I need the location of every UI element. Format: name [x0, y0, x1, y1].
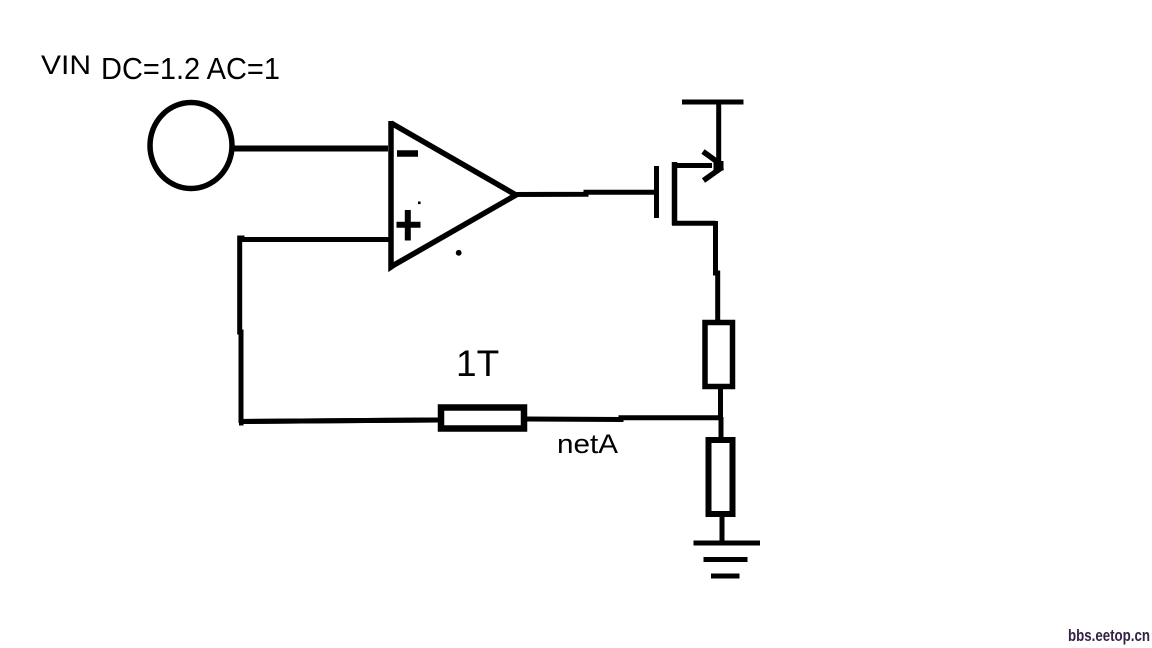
- node netA horizontal wire: [239, 418, 723, 422]
- wire R1 to node netA: [718, 386, 723, 419]
- wire op-amp output to MOSFET gate: [514, 192, 654, 194]
- transistor M1 drain horizontal: [672, 163, 712, 168]
- svg-text:VIN: VIN: [41, 50, 91, 80]
- wire VIN to op-amp inverting input: [230, 146, 388, 152]
- wire R2 to ground: [720, 514, 725, 542]
- svg-text:DC=1.2 AC=1: DC=1.2 AC=1: [101, 51, 280, 86]
- stray dot small: [418, 202, 421, 205]
- resistor R3 1T: [441, 408, 524, 429]
- svg-text:1T: 1T: [456, 343, 499, 384]
- wire source down to R1: [716, 221, 718, 320]
- transistor M1 arrow: [703, 152, 724, 181]
- node netA stub down: [719, 417, 724, 440]
- wire drain to VDD bar: [716, 104, 721, 166]
- op-amp plus label: [397, 210, 421, 241]
- ground: [694, 543, 761, 576]
- transistor M1 source horizontal: [672, 221, 716, 226]
- op-amp U1 triangle: [391, 121, 516, 267]
- resistor R1: [705, 323, 733, 387]
- transistor M1 gate bar: [654, 166, 659, 218]
- wire left vertical to resistor 1T: [239, 420, 438, 422]
- svg-text:netA: netA: [557, 429, 618, 459]
- VDD supply bar: [682, 100, 744, 105]
- resistor R2: [709, 440, 733, 514]
- transistor M1 channel bar: [672, 162, 678, 225]
- feedback wire: + input to left vertical: [239, 238, 390, 423]
- stray dot large: [456, 250, 462, 256]
- op-amp minus label: [397, 150, 418, 157]
- voltage source VIN circle: [150, 103, 232, 189]
- svg-text:bbs.eetop.cn: bbs.eetop.cn: [1068, 626, 1150, 645]
